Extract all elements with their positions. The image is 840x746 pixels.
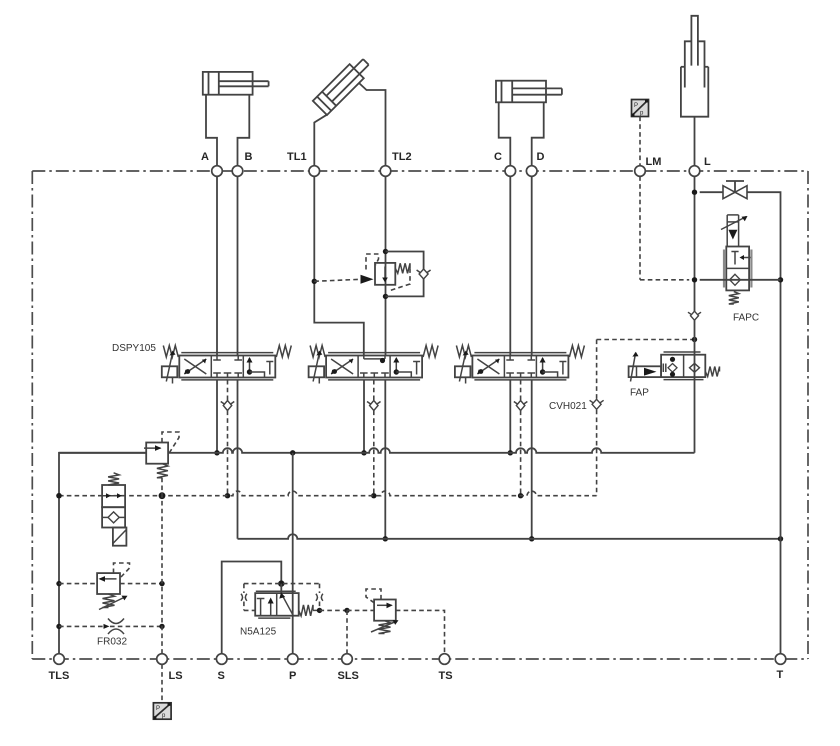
- node valve no.3 P junction: [508, 450, 513, 455]
- port LM: [635, 166, 646, 177]
- port TL1: [309, 166, 320, 177]
- node L line FAPC junction: [692, 277, 697, 282]
- node LS bus junction valve no.2: [371, 493, 376, 498]
- svg-text:SLS: SLS: [338, 670, 359, 682]
- directional control valve DSPY105 no.3: [455, 346, 585, 384]
- wire TL1 port down: [314, 176, 364, 355]
- wire dash-dot manifold boundary left: [31, 171, 33, 659]
- spring relief lower-left: [103, 594, 115, 608]
- node L line FAP junction: [692, 337, 697, 342]
- check valve on L line: [691, 311, 699, 320]
- wire valve no.3 P to pressure bus: [509, 380, 511, 453]
- wire tank bus: [238, 534, 781, 539]
- wire dash-dot manifold boundary right: [807, 171, 809, 659]
- port S: [216, 654, 227, 665]
- wire dashed LS of valve no.2: [373, 380, 375, 401]
- node L shutoff junction: [692, 190, 697, 195]
- port LS: [157, 654, 168, 665]
- wire dashed LS riser: [161, 496, 163, 654]
- wire dashed LS of valve no.1 lower: [227, 411, 229, 496]
- solenoid valve FAP: [629, 352, 706, 382]
- svg-text:T: T: [777, 669, 784, 681]
- svg-text:P: P: [289, 670, 296, 682]
- svg-text:B: B: [245, 151, 253, 163]
- svg-text:S: S: [218, 670, 225, 682]
- node TLS riser FR032 junction: [56, 624, 61, 629]
- node LS bus LS-port junction: [159, 492, 166, 499]
- check valve in TL bypass: [419, 269, 428, 279]
- wire pressure bus: [168, 448, 694, 453]
- port C: [505, 166, 516, 177]
- port L: [689, 166, 700, 177]
- wire dashed LM symbol to port LM: [639, 117, 641, 166]
- spring relief SLS: [379, 621, 391, 634]
- node TL1 junction: [312, 279, 317, 284]
- pressure test point LM symbol: [632, 100, 649, 117]
- wire dashed LS of valve no.2 lower: [373, 411, 375, 496]
- svg-text:FR032: FR032: [97, 637, 127, 648]
- wire L cylinder to port L: [694, 117, 696, 166]
- wire valve no.1 T line to tank bus: [237, 380, 239, 539]
- port TS: [439, 654, 450, 665]
- svg-text:FAPC: FAPC: [733, 313, 759, 324]
- node tank bus junction valve no.3: [529, 536, 534, 541]
- node TL2 bypass bottom junction: [383, 294, 388, 299]
- node tank bus junction valve no.2: [383, 536, 388, 541]
- spring reducing valve: [157, 464, 168, 478]
- wire C port to valve no.3: [509, 176, 511, 355]
- node TLS riser relief junction: [56, 581, 61, 586]
- wire valve no.3 T line: [531, 380, 533, 539]
- unloading valve N5A125: [255, 591, 299, 618]
- svg-text:C: C: [494, 151, 502, 163]
- node LS riser relief junction: [159, 581, 164, 586]
- port TL2: [380, 166, 391, 177]
- shut-off valve at L: [723, 181, 747, 199]
- node TLS riser LS-bus junction: [56, 493, 61, 498]
- svg-text:TLS: TLS: [49, 670, 70, 682]
- pilot relief valve FR-circuit: [97, 573, 120, 594]
- svg-text:LM: LM: [646, 156, 662, 168]
- port B: [232, 166, 243, 177]
- svg-text:DSPY105: DSPY105: [112, 343, 156, 354]
- node valve no.1 P junction: [214, 450, 219, 455]
- wire dashed LS of valve no.3: [520, 380, 522, 401]
- port TLS: [54, 654, 65, 665]
- node tank bus right junction: [778, 536, 783, 541]
- wire dashed N5A125 to SLS: [320, 609, 348, 611]
- wire dashed TL1 pilot to relief valve: [314, 279, 360, 281]
- node valve no.2 P junction: [361, 450, 366, 455]
- svg-text:FAP: FAP: [630, 388, 649, 399]
- wire TLS riser: [59, 453, 146, 654]
- node TL2 bypass top junction: [383, 249, 388, 254]
- svg-text:CVH021: CVH021: [549, 401, 587, 412]
- wire valve no.1 P to pressure bus: [216, 380, 218, 453]
- pressure reducing valve: [59, 443, 168, 464]
- svg-text:P: P: [156, 706, 160, 712]
- wire B port to valve DSPY105 no.1: [237, 176, 239, 355]
- wire dash-dot manifold boundary top: [32, 170, 808, 172]
- pilot envelope N5A125: [241, 584, 323, 611]
- node N5A125 outlet junction: [317, 608, 322, 613]
- cylinder actuator (tilted) over ports TL1/TL2: [313, 55, 386, 166]
- wire FAP down to pressure bus: [694, 377, 696, 453]
- wire S port line: [222, 562, 282, 654]
- wire dashed reducing valve pilot: [162, 432, 179, 453]
- relief valve TL circuit: [361, 263, 396, 285]
- port A: [212, 166, 223, 177]
- wire shutoff valve to T drop line: [747, 192, 781, 654]
- wire L port down to FAP: [694, 176, 696, 377]
- svg-text:TL1: TL1: [287, 151, 307, 163]
- svg-text:A: A: [201, 151, 209, 163]
- wire dashed load-sense bus: [59, 491, 597, 496]
- load-sense check valve of valve no.1: [223, 401, 232, 411]
- wire dashed CVH021 to L line: [597, 339, 695, 341]
- svg-text:L: L: [704, 156, 711, 168]
- spring FAP: [705, 367, 719, 377]
- node LS riser FR032 junction: [159, 624, 164, 629]
- wire valve no.2 P to pressure bus: [363, 380, 365, 453]
- wire P supply riser: [292, 453, 294, 654]
- spring adjust arrow SLS: [371, 621, 397, 632]
- node T line FAPC junction: [778, 277, 783, 282]
- pilot selector valve left: [102, 485, 126, 546]
- wire TL2 port down to valve no.2: [385, 176, 387, 355]
- node SLS junction: [344, 608, 349, 613]
- spring adjust arrow: [99, 597, 126, 610]
- pressure test point LS symbol: [153, 703, 171, 719]
- svg-text:D: D: [537, 151, 545, 163]
- wire S into N5A125: [280, 584, 282, 594]
- node N5A125 pilot junction: [278, 580, 284, 586]
- wire dashed LS port to test point: [161, 664, 163, 703]
- wire dashed relief SLS to TS: [396, 610, 445, 653]
- telescopic cylinder over port L: [681, 16, 708, 117]
- wire dashed LS of valve no.3 lower: [520, 411, 522, 496]
- wire dashed LM pilot down: [639, 176, 641, 279]
- port SLS: [342, 654, 353, 665]
- check valve CVH021: [592, 399, 601, 409]
- load-sense check valve of valve no.3: [516, 401, 525, 411]
- spring relief valve TL: [395, 263, 410, 273]
- wire A port to valve DSPY105 no.1: [216, 176, 218, 355]
- spring FAPC: [729, 292, 739, 305]
- wire dashed relief TL remote box: [366, 254, 379, 270]
- wire L to shutoff valve: [700, 191, 723, 193]
- wire D port to valve no.3: [531, 176, 533, 355]
- load-sense check valve of valve no.2: [370, 401, 379, 411]
- directional control valve DSPY105 no.2 (TL): [309, 346, 439, 384]
- cylinder actuator over ports A/B: [203, 72, 269, 166]
- wire dashed TLS to relief: [59, 583, 97, 585]
- wire dashed LS of valve no.1: [227, 380, 229, 401]
- svg-text:LS: LS: [169, 670, 183, 682]
- svg-text:TL2: TL2: [392, 151, 412, 163]
- svg-text:TS: TS: [439, 670, 453, 682]
- node pressure bus P supply junction: [290, 450, 295, 455]
- wire FAPC through line: [700, 279, 781, 281]
- node LS bus junction valve no.3: [518, 493, 523, 498]
- wire dashed relief to LS riser: [120, 583, 162, 585]
- wire dashed relief SLS pilot box: [366, 589, 381, 603]
- wire dashed SLS to relief: [347, 609, 374, 611]
- port P: [287, 654, 298, 665]
- spring N5A125: [299, 605, 313, 616]
- port D: [526, 166, 537, 177]
- port T: [775, 654, 786, 665]
- svg-text:N5A125: N5A125: [240, 627, 277, 638]
- node LS bus left junction: [56, 493, 61, 498]
- relief valve SLS: [374, 600, 396, 621]
- wire dashed SLS down: [346, 610, 348, 653]
- wire valve no.2 T line: [384, 380, 386, 539]
- orifice FR032: [59, 619, 162, 635]
- wire dash-dot manifold boundary bottom: [32, 658, 808, 660]
- wire dashed relief TL spring drain: [390, 268, 410, 290]
- svg-text:P: P: [634, 103, 638, 109]
- pressure compensator FAPC: [721, 215, 751, 291]
- node LS bus junction valve no.1: [225, 493, 230, 498]
- wire dashed reducing valve spring to LS: [161, 478, 163, 496]
- wire dashed relief pilot box: [114, 563, 130, 577]
- wire bypass loop around TL relief: [386, 252, 424, 297]
- wire dashed LM pilot to FAPC line: [640, 279, 689, 281]
- spring pilot selector: [108, 473, 119, 485]
- cylinder actuator over ports C/D: [496, 81, 562, 166]
- wire dashed CVH021 branch: [596, 340, 598, 496]
- directional control valve DSPY105 no.1: [162, 346, 291, 384]
